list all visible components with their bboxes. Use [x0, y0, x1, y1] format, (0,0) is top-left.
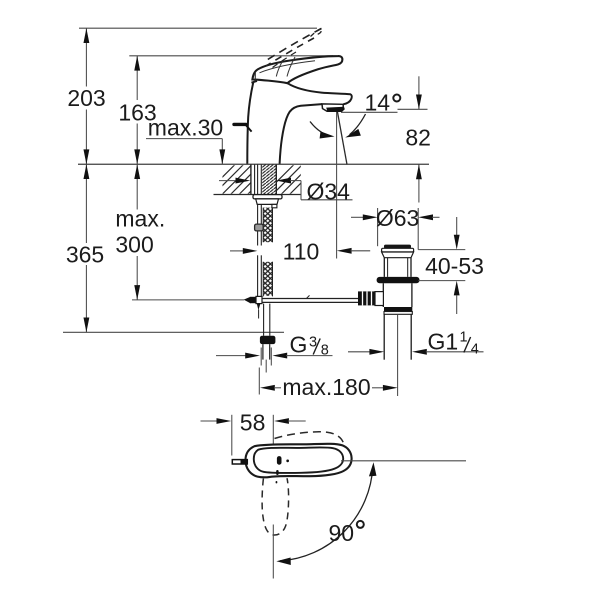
handle cap lower nub	[251, 81, 257, 83]
dimension max.30 leader	[146, 139, 225, 165]
side view outer body outline	[245, 444, 351, 478]
flexible supply hose (upper braided section)	[263, 208, 272, 243]
drain tailpipe	[384, 314, 411, 359]
counter hatch left block	[205, 165, 278, 195]
wire: countertop line	[78, 163, 429, 165]
svg-text:203: 203	[67, 85, 105, 111]
svg-text:max.30: max.30	[148, 115, 223, 141]
dimension max.300 vertical line	[134, 164, 140, 300]
dimension 110 right arrow at stream centerline	[337, 248, 370, 254]
label G3/8	[290, 332, 329, 359]
side view cartridge marks	[276, 456, 289, 483]
horizontal pop-up linkage pipe to drain	[262, 295, 366, 302]
label G1 1/4	[428, 329, 479, 358]
label 82	[405, 124, 431, 150]
svg-text:Ø63: Ø63	[376, 205, 419, 231]
side view vertical centerline lower	[272, 525, 274, 579]
svg-text:58: 58	[240, 409, 266, 435]
wire: handle rest height reference line	[129, 55, 333, 57]
label 365	[66, 242, 104, 268]
wire: water stream vertical centerline to drain	[336, 111, 338, 259]
dimension 110 leader arrow (left)	[230, 248, 257, 254]
svg-text:82: 82	[405, 124, 431, 150]
svg-text:90: 90	[329, 520, 355, 546]
drain tee knurled nut	[358, 291, 375, 305]
svg-text:365: 365	[66, 242, 104, 268]
dimension G1 1/4 arrows	[348, 349, 484, 355]
svg-text:8: 8	[321, 343, 329, 359]
label 14 degrees with leader underline	[341, 89, 400, 115]
pop-up lift rod (lower)	[258, 255, 262, 296]
svg-text:110: 110	[283, 239, 320, 265]
faucet aerator	[322, 104, 345, 112]
svg-text:300: 300	[115, 231, 153, 257]
drain rubber seal band	[377, 277, 420, 283]
dimension 203 vertical line	[83, 28, 89, 164]
svg-text:40-53: 40-53	[425, 253, 484, 279]
hose lower plain tube	[264, 304, 270, 336]
pop-up rod knob at rear	[234, 124, 252, 131]
wire: 90 degree horizontal reference line	[341, 460, 466, 462]
svg-text:G: G	[290, 332, 308, 358]
svg-text:1: 1	[460, 330, 468, 346]
label max.180	[282, 374, 370, 400]
dimension Ø63 arrows	[351, 214, 440, 220]
side view rotated handle dashed outline	[262, 478, 289, 535]
side view rear knob stub	[232, 460, 247, 464]
drain upper cylinder	[384, 258, 411, 277]
drain flange cone	[382, 252, 414, 258]
dimension 58	[201, 415, 306, 466]
label max.300	[115, 205, 165, 257]
drain centerline	[397, 314, 399, 396]
side view inner handle outline	[254, 447, 343, 473]
rod coupler block	[255, 224, 264, 231]
wire: supply connection reference line (max.300 level)	[132, 299, 244, 301]
faucet spout nose	[288, 83, 352, 104]
drain plug cap	[382, 245, 414, 252]
drain lower nut band	[384, 307, 412, 314]
faucet lever handle	[252, 56, 342, 83]
label 203	[67, 85, 105, 111]
label max.30	[148, 115, 223, 141]
dimension G3/8 arrows and ticks	[216, 348, 333, 366]
handle interior sketch lines	[260, 57, 316, 77]
angle arc 90 degrees with arrows	[276, 462, 376, 565]
counter hatch right block	[264, 165, 320, 195]
dimension 82 vertical line	[398, 76, 428, 202]
angle arc 14 degrees left part with arrow	[310, 122, 335, 139]
label 163	[118, 99, 156, 125]
flexible supply hose (lower braided section)	[263, 262, 272, 297]
label 90 degrees	[329, 520, 364, 546]
svg-text:G1: G1	[428, 329, 459, 355]
raised handle dashed outline	[265, 28, 322, 69]
label Ø34	[307, 178, 351, 204]
drain tee body	[375, 292, 383, 306]
faucet body outline	[247, 82, 322, 164]
dimension Ø63 extension lines	[378, 208, 419, 250]
hose thread stub	[263, 344, 270, 372]
wire: 14-degree tilted stream line	[337, 111, 347, 165]
dimension Ø34 arrows and leader	[219, 178, 353, 200]
label 58	[240, 409, 266, 435]
dimension 365 vertical line	[83, 164, 89, 332]
pop-up rod lower pointed tip	[257, 303, 261, 319]
svg-text:14: 14	[365, 89, 391, 115]
linkage clamp with pointed end	[244, 296, 262, 303]
wire: top reference line (raised handle height)	[79, 27, 317, 29]
hose end nut (G3/8)	[260, 336, 276, 344]
mounting nut	[256, 199, 279, 208]
svg-text:max.: max.	[115, 205, 165, 231]
drain body	[383, 283, 412, 307]
pop-up lift rod (upper)	[258, 165, 262, 246]
dimension max.180	[259, 368, 397, 395]
side view raised handle dashed arc	[275, 432, 344, 444]
faucet threaded shank through counter	[251, 165, 276, 205]
svg-text:Ø34: Ø34	[307, 178, 351, 204]
mounting washer	[253, 195, 282, 199]
wire: hose end reference line (365 level)	[63, 331, 284, 333]
label 110	[283, 239, 320, 265]
svg-text:max.180: max.180	[282, 374, 370, 400]
label Ø63	[376, 205, 419, 231]
dimension 40-53	[418, 217, 465, 314]
dimension 163 vertical line	[134, 56, 140, 164]
wire: counter underside line	[214, 194, 301, 196]
label 40-53	[425, 253, 484, 279]
svg-text:4: 4	[471, 342, 479, 358]
handle cap inner edge line	[254, 73, 256, 81]
angle arc 14 degrees right part with arrow	[345, 114, 365, 138]
